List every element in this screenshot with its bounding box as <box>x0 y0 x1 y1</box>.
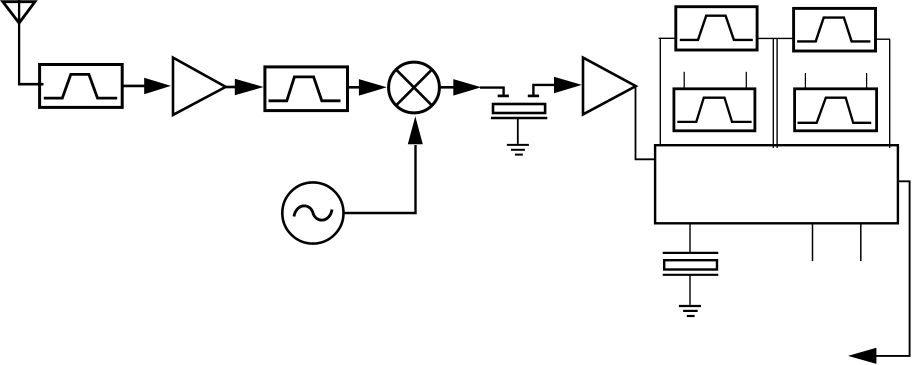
wire A2 to block U2 <box>636 87 657 160</box>
right rail wire <box>889 39 891 148</box>
wire A1 to filter FL2 <box>225 86 236 89</box>
wire U2 to crystal Y2 <box>689 223 691 253</box>
FL4 terminal stubs <box>684 72 746 89</box>
feedback wire from U2 right side <box>876 181 910 356</box>
wire mixer to crystal filter Y1 <box>439 86 455 89</box>
filter bank pair 1: band-pass filter FL3 <box>676 7 757 50</box>
feedback arrowhead <box>848 348 876 364</box>
wire antenna to filter FL1 <box>18 83 44 86</box>
mixer U1 <box>389 62 440 113</box>
IC block U2 <box>655 145 898 223</box>
wire FL1 to amplifier A1 <box>121 85 145 88</box>
output stub wire 1 <box>812 223 814 261</box>
filter bank pair 2: band-pass filter FL5 <box>794 8 876 51</box>
wire FL3 to FL5 <box>757 37 794 39</box>
crystal filter Y1 <box>491 96 547 144</box>
crystal Y2 <box>663 253 719 275</box>
filter bank pair 1: crystal filter FL4 <box>674 89 755 131</box>
output stub wire 2 <box>860 223 862 261</box>
ground under Y2 <box>679 306 701 316</box>
arrowhead into mixer <box>359 79 387 96</box>
wire FL5 to right rail <box>876 38 891 40</box>
band-pass filter FL2 <box>265 67 348 111</box>
ground under Y1 <box>507 145 529 155</box>
antenna ANT1 <box>3 0 35 84</box>
arrowhead into A2 <box>554 77 582 94</box>
arrowhead <box>453 79 481 96</box>
wire Y2 to ground <box>689 275 691 305</box>
arrowhead into mixer bottom <box>408 116 423 144</box>
wire left of FL3 <box>659 37 676 39</box>
middle rail wire b <box>776 38 778 147</box>
local oscillator G1 <box>282 182 343 243</box>
left rail wire <box>659 38 661 146</box>
arrowhead into FL2 <box>235 79 264 96</box>
middle rail wire a <box>772 38 774 147</box>
wire FL2 to mixer U1 <box>347 86 361 89</box>
arrowhead into A1 <box>144 78 171 95</box>
amplifier A1 <box>173 58 226 115</box>
wire Y1 to amplifier A2 <box>533 85 555 95</box>
amplifier A2 <box>583 58 636 115</box>
band-pass filter FL1 <box>40 65 123 108</box>
filter bank pair 2: crystal filter FL6 <box>795 89 877 131</box>
wire into Y1 left terminal <box>480 88 504 96</box>
wire G1 to mixer <box>344 145 416 213</box>
FL6 terminal stubs <box>805 73 866 89</box>
